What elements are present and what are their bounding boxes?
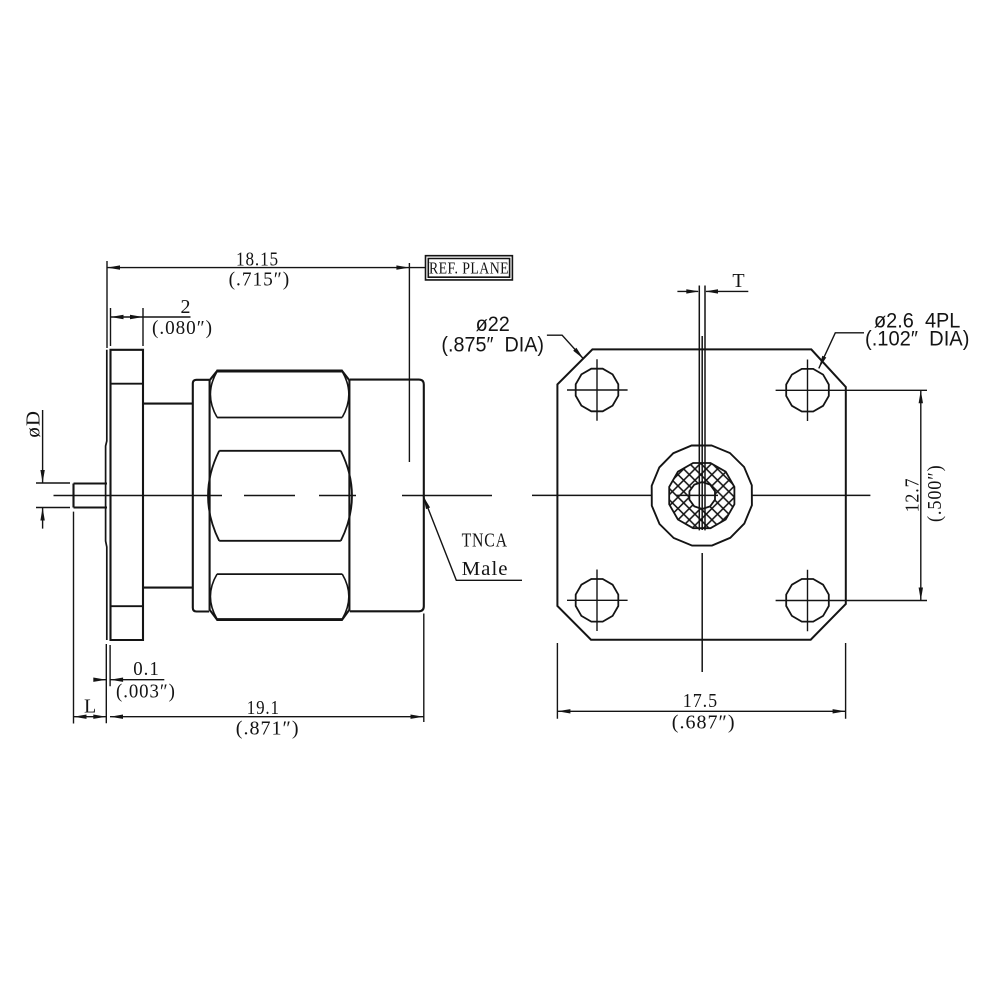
dim 2 line xyxy=(111,316,191,318)
svg-text:L: L xyxy=(84,696,97,718)
label leader diam 22 xyxy=(547,335,584,359)
gasket plate edge xyxy=(106,350,107,640)
svg-text:(.003″): (.003″) xyxy=(116,681,176,703)
centerline left view xyxy=(54,495,493,497)
dim L line xyxy=(74,716,107,718)
dim T line xyxy=(677,290,748,292)
outer interface circle xyxy=(652,445,752,545)
pin slot lines xyxy=(699,286,705,531)
svg-text:(.687″): (.687″) xyxy=(672,712,736,734)
dim 19.1 line xyxy=(110,716,424,718)
hex top and bottom flats thick xyxy=(217,371,343,620)
svg-text:Male: Male xyxy=(462,558,509,580)
dim L extension line xyxy=(73,512,75,724)
dim 19.1 extension line xyxy=(423,614,425,723)
mounting hole top-left xyxy=(576,369,619,412)
mounting hole bottom-left xyxy=(576,579,619,622)
hex chamfer band arcs xyxy=(210,371,348,619)
svg-text:18.15: 18.15 xyxy=(236,249,279,271)
dim 0.1 extension lines xyxy=(106,644,110,723)
flange plate (side) xyxy=(111,350,144,640)
svg-text:øD: øD xyxy=(23,410,45,438)
TNCA Male leader xyxy=(423,496,522,580)
dim oD extension lines xyxy=(36,483,70,508)
ref plane box xyxy=(426,256,513,280)
dim 17.5 extension lines xyxy=(557,643,845,719)
body barrel xyxy=(350,380,424,612)
svg-text:2: 2 xyxy=(181,296,192,318)
label leader diam 2.6 xyxy=(819,333,864,369)
flange chamfer lines xyxy=(111,384,144,607)
mounting hole bottom-right xyxy=(786,579,829,622)
svg-text:(.871″): (.871″) xyxy=(236,718,300,740)
svg-text:(.102″ DIA): (.102″ DIA) xyxy=(865,328,969,351)
dim 0.1 line xyxy=(96,679,165,681)
dim 12.7 line xyxy=(920,390,922,600)
svg-text:12.7: 12.7 xyxy=(901,478,923,513)
dim oD line xyxy=(42,410,44,529)
mounting hole top-right xyxy=(786,369,829,412)
hex nut silhouette xyxy=(210,371,350,620)
svg-text:T: T xyxy=(732,270,745,292)
svg-text:REF. PLANE: REF. PLANE xyxy=(429,259,509,278)
svg-text:19.1: 19.1 xyxy=(247,697,280,719)
svg-text:(.875″ DIA): (.875″ DIA) xyxy=(441,334,544,357)
dielectric hatched circle xyxy=(669,463,734,528)
vertical centerline right view xyxy=(701,336,703,672)
center pin circle xyxy=(689,482,715,509)
flange plate front (octagon) xyxy=(557,349,845,639)
center pin (side) xyxy=(74,484,108,508)
ref plane line xyxy=(408,263,410,462)
horizontal centerline right view xyxy=(532,494,870,496)
svg-text:0.1: 0.1 xyxy=(133,658,159,680)
svg-text:TNCA: TNCA xyxy=(462,530,508,552)
svg-text:(.500″): (.500″) xyxy=(924,464,946,522)
hex flat division lines xyxy=(217,418,342,575)
dim 2 extension lines xyxy=(111,308,144,346)
neck cylinder xyxy=(143,404,193,588)
hex mid-face arcs xyxy=(208,451,352,541)
collar ring xyxy=(193,380,209,612)
dim 18.15 line xyxy=(107,267,426,269)
dim 17.5 line xyxy=(557,710,845,712)
svg-text:17.5: 17.5 xyxy=(683,690,718,712)
svg-text:(.080″): (.080″) xyxy=(152,317,213,339)
svg-text:(.715″): (.715″) xyxy=(229,269,291,291)
dim 18.15 extension line xyxy=(106,261,108,348)
